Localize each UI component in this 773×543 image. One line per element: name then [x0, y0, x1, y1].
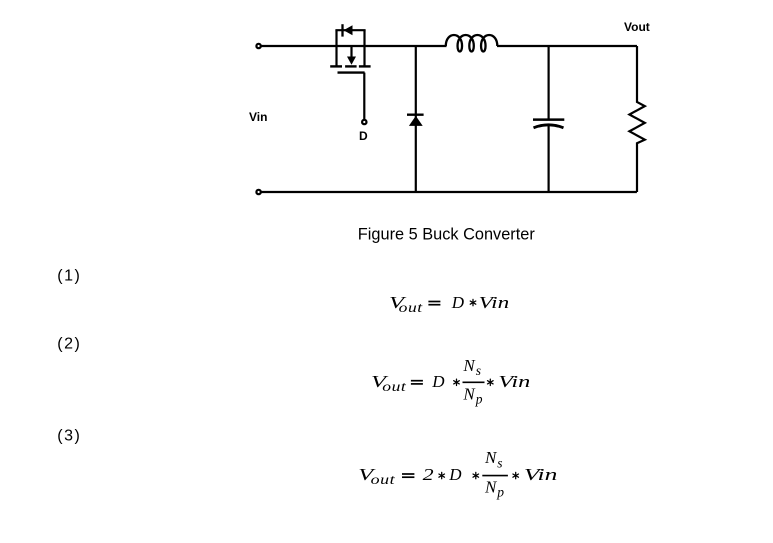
svg-text:s: s [476, 363, 482, 378]
svg-text:p: p [496, 485, 504, 500]
svg-text:(1): (1) [57, 268, 81, 285]
svg-text:D: D [451, 293, 465, 312]
svg-text:D: D [431, 372, 445, 391]
svg-text:Vin: Vin [524, 465, 558, 484]
svg-text:Vout: Vout [624, 20, 650, 34]
svg-text:p: p [475, 391, 483, 406]
svg-text:D: D [448, 465, 462, 484]
svg-text:Vin: Vin [498, 372, 530, 391]
svg-text:(3): (3) [57, 427, 81, 444]
svg-text:Vin: Vin [249, 110, 267, 124]
svg-text:out: out [371, 472, 397, 487]
svg-text:D: D [359, 129, 368, 143]
svg-text:(2): (2) [57, 336, 81, 353]
svg-text:s: s [497, 455, 503, 470]
svg-text:N: N [462, 356, 476, 375]
svg-text:out: out [382, 379, 407, 394]
svg-text:out: out [399, 300, 424, 315]
svg-text:Figure 5 Buck Converter: Figure 5 Buck Converter [358, 225, 535, 244]
svg-text:Vin: Vin [479, 293, 510, 312]
svg-text:N: N [484, 448, 498, 467]
svg-text:2: 2 [423, 465, 435, 484]
svg-text:N: N [484, 478, 498, 497]
svg-text:N: N [462, 384, 476, 403]
